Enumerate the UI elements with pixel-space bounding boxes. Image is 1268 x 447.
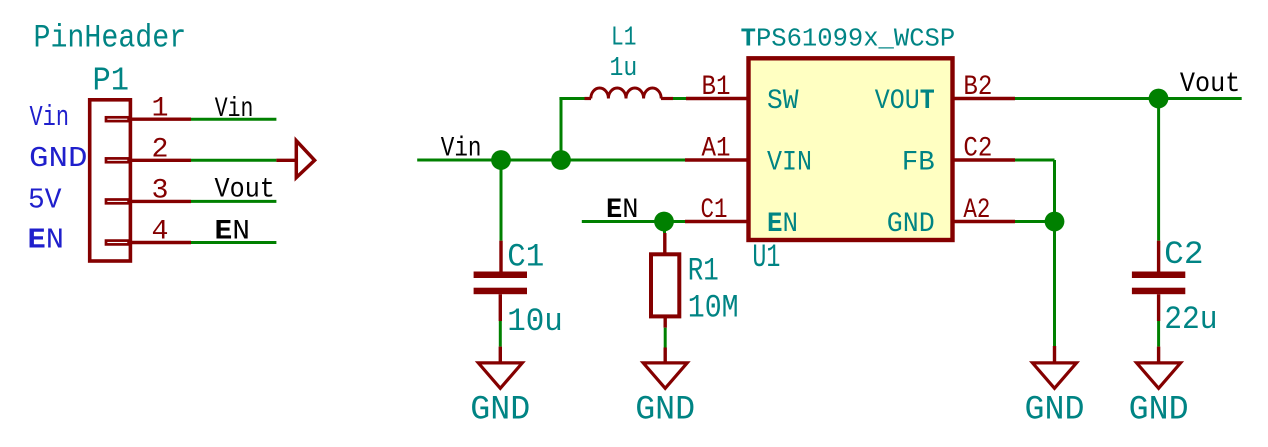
svg-text:EN: EN <box>767 209 798 240</box>
svg-text:C1: C1 <box>701 195 728 226</box>
svg-text:VOUT: VOUT <box>875 86 935 117</box>
resistor R1 body <box>651 254 679 316</box>
junction dot at Vout <box>1149 89 1169 109</box>
wire C1 to GND <box>499 321 502 347</box>
svg-text:GND: GND <box>1025 391 1085 429</box>
svg-text:4: 4 <box>152 217 169 248</box>
capacitor C2 bottom plate <box>1132 288 1185 295</box>
ground symbol under A2 <box>1033 363 1077 388</box>
wire FB vertical down <box>1053 160 1056 222</box>
wire L1 branch vertical <box>560 99 563 161</box>
IC U1 pin A2 lead <box>953 220 1016 223</box>
hierarchical arrow lead on P1 pin 2 wire <box>276 159 296 162</box>
capacitor C1 top plate <box>474 272 527 279</box>
wire C2 to GND <box>1157 321 1160 347</box>
svg-text:Vin: Vin <box>441 134 482 165</box>
svg-text:EN: EN <box>606 195 639 226</box>
svg-text:GND: GND <box>29 142 88 175</box>
IC U1 pin C2 lead <box>953 158 1016 161</box>
ground symbol under C1 <box>478 363 522 388</box>
wire to L1 left <box>559 97 584 100</box>
svg-text:1u: 1u <box>610 54 638 84</box>
wire A2 junction to GND <box>1053 222 1056 347</box>
svg-text:22u: 22u <box>1164 301 1217 338</box>
IC U1 pin B1 lead <box>686 97 749 100</box>
inductor L1 left pin stub <box>585 97 592 100</box>
wire L1 to SW <box>673 97 686 100</box>
connector P1 pin 2 socket notch <box>106 158 129 162</box>
inductor L1 <box>591 88 661 99</box>
capacitor C1 bottom lead <box>499 294 502 321</box>
wire from P1 pin 4 <box>191 241 276 244</box>
wire R1 branch <box>663 222 666 234</box>
junction dot at A2 / FB <box>1045 212 1065 232</box>
IC U1 pin C1 lead <box>685 220 749 223</box>
connector P1 pin 3 socket notch <box>106 200 129 204</box>
wire from P1 pin 2 <box>191 159 276 162</box>
svg-text:Vout: Vout <box>1180 69 1240 100</box>
svg-text:GND: GND <box>470 391 530 429</box>
ground lead under R1 <box>664 348 667 363</box>
wire Vin horizontal <box>417 159 685 162</box>
svg-text:VIN: VIN <box>767 148 812 179</box>
svg-text:FB: FB <box>902 148 935 179</box>
svg-text:B1: B1 <box>702 72 731 103</box>
svg-text:10u: 10u <box>507 303 563 340</box>
svg-text:10M: 10M <box>688 289 739 326</box>
ground lead under A2 <box>1053 346 1056 363</box>
svg-text:P1: P1 <box>93 63 130 100</box>
wire EN horizontal <box>582 220 685 223</box>
svg-text:Vout: Vout <box>215 175 275 206</box>
svg-text:PinHeader: PinHeader <box>34 19 187 56</box>
wire FB horizontal <box>1015 159 1055 162</box>
connector P1 pin 1 lead <box>130 117 191 120</box>
svg-text:C2: C2 <box>963 134 992 165</box>
IC U1 pin A1 lead <box>685 158 749 161</box>
resistor R1 top lead <box>663 233 666 254</box>
capacitor C2 top plate <box>1132 272 1185 279</box>
svg-text:A1: A1 <box>702 134 731 165</box>
ground symbol under R1 <box>643 363 687 388</box>
capacitor C2 top lead <box>1157 241 1160 272</box>
svg-text:2: 2 <box>152 135 169 166</box>
ground lead under C1 <box>499 347 502 363</box>
IC U1 pin B2 lead <box>953 97 1016 100</box>
svg-text:Vin: Vin <box>215 94 254 125</box>
svg-text:GND: GND <box>887 209 935 240</box>
wire C1 branch vertical <box>500 160 503 241</box>
svg-text:GND: GND <box>635 391 695 429</box>
svg-text:Vin: Vin <box>30 101 70 134</box>
junction dot at Vin / C1 branch <box>491 150 511 170</box>
connector P1 pin 3 lead <box>130 200 191 203</box>
svg-text:U1: U1 <box>752 239 780 276</box>
wire A2 horizontal <box>1015 220 1055 223</box>
wire from P1 pin 1 <box>191 118 276 121</box>
wire from P1 pin 3 <box>191 200 276 203</box>
svg-text:A2: A2 <box>963 195 990 226</box>
wire R1 to GND <box>664 328 667 348</box>
wire Vout to C2 <box>1157 99 1160 241</box>
svg-text:R1: R1 <box>688 253 719 290</box>
connector P1 pin 4 lead <box>130 241 191 244</box>
svg-text:EN: EN <box>28 224 65 257</box>
svg-text:5V: 5V <box>28 184 62 217</box>
ground symbol under C2 <box>1137 363 1181 388</box>
svg-text:EN: EN <box>215 217 251 248</box>
svg-text:1: 1 <box>152 93 169 124</box>
svg-text:C2: C2 <box>1164 236 1203 273</box>
inductor L1 right pin stub <box>661 97 673 100</box>
svg-text:C1: C1 <box>507 239 544 276</box>
capacitor C2 bottom lead <box>1157 294 1160 321</box>
ground lead under C2 <box>1157 347 1160 363</box>
junction dot at EN / R1 branch <box>654 212 674 232</box>
svg-text:GND: GND <box>1129 391 1189 429</box>
svg-text:TPS61099x_WCSP: TPS61099x_WCSP <box>741 25 956 54</box>
svg-text:B2: B2 <box>963 72 992 103</box>
svg-text:SW: SW <box>767 86 799 117</box>
capacitor C1 top lead <box>499 241 502 272</box>
connector P1 pin 4 socket notch <box>106 241 129 245</box>
svg-text:L1: L1 <box>611 24 636 54</box>
capacitor C1 bottom plate <box>474 288 527 295</box>
IC U1 body <box>749 58 953 240</box>
wire VOUT to Vout <box>1015 97 1242 100</box>
junction dot at Vin / L1 branch <box>551 150 571 170</box>
svg-text:3: 3 <box>152 176 169 207</box>
resistor R1 bottom lead <box>664 316 667 327</box>
connector P1 body <box>90 100 131 261</box>
hierarchical arrow on P1 pin 2 <box>296 141 314 178</box>
connector P1 pin 1 socket notch <box>106 117 129 121</box>
connector P1 pin 2 lead <box>130 159 191 162</box>
